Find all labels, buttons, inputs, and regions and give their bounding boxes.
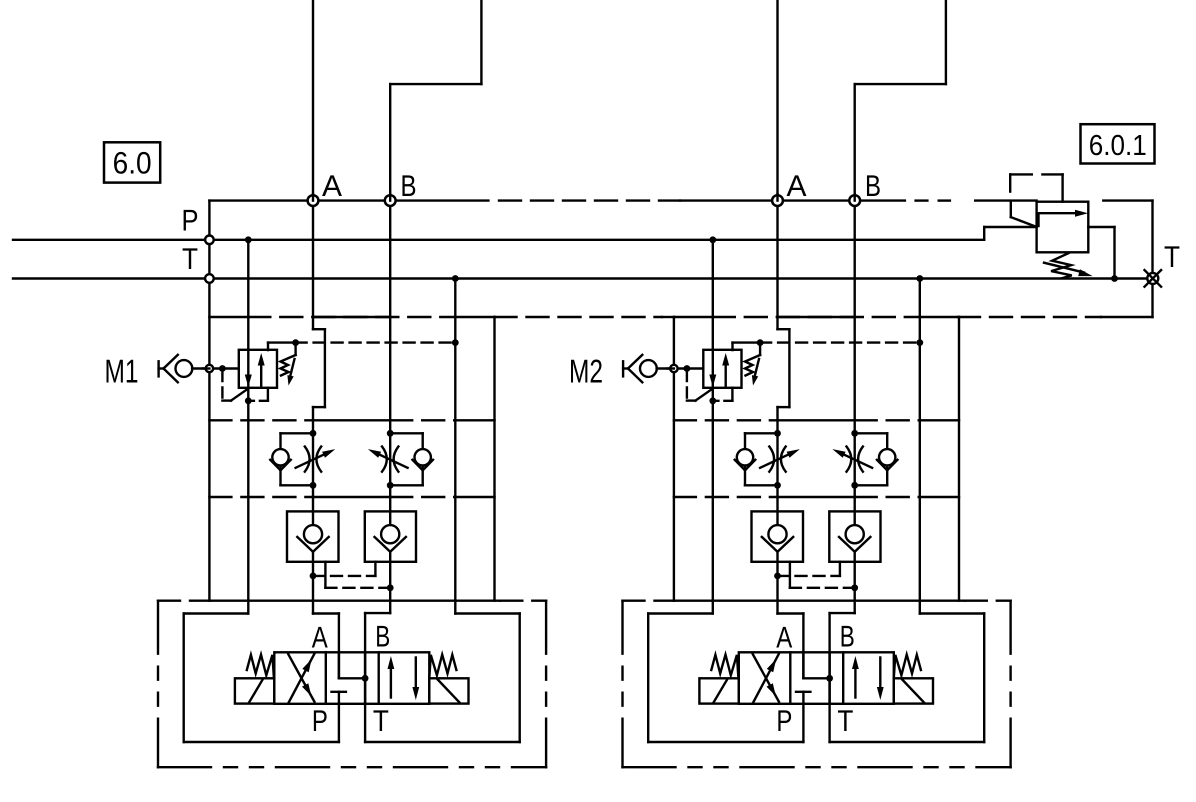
wire: P pressure rail — [13, 239, 984, 241]
DCV return spring left (module 6.0 section 1) — [247, 655, 274, 678]
wire: module inner right vertical (module 6.0 section 2) — [958, 317, 960, 601]
boundary dashed rail mid2 (module 6.0 section 1) — [209, 496, 494, 498]
junction: flow control bottom B (module 6.0 section 2) — [851, 482, 858, 489]
svg-text:P: P — [312, 705, 328, 738]
boundary dashed rail mid2 (module 6.0 section 2) — [674, 496, 959, 498]
label M2 — [569, 353, 603, 390]
relief valve 6.0.1 pilot pickup diagonal — [1011, 202, 1037, 227]
relief valve 6.0.1 body square — [1037, 202, 1089, 253]
label 6.0.1 — [1089, 130, 1147, 162]
wire: pilot cross line from A to check B (module 6.0 section 2) — [778, 562, 840, 576]
boundary dashed rail between modules — [495, 316, 675, 318]
wire: gauge line (module 6.0 section 1) — [192, 367, 239, 369]
wire: pilot cross line from A to check B (module 6.0 section 1) — [313, 562, 375, 576]
wire: P supply tap vertical (module 6.0 section 2) — [712, 240, 714, 614]
label P — [182, 205, 199, 238]
relief valve adjustable spring (module 6.0 section 1) — [281, 344, 296, 386]
label T — [182, 243, 198, 276]
wire: DCV port A channel (module 6.0 section 2) — [778, 614, 804, 679]
relief valve adjustable spring (module 6.0 section 2) — [745, 344, 760, 386]
wire: relief pilot riser (module 6.0 section 2) — [733, 343, 761, 351]
DCV right position parallel arrows (module 6.0 section 1) — [388, 656, 420, 700]
DCV centre position A-B-T connection (module 6.0 section 2) — [803, 652, 833, 704]
DCV return spring right (module 6.0 section 1) — [429, 655, 456, 678]
port B circle (module 6.0 section 2) — [849, 194, 860, 206]
valve subplate solid outline (module 6.0 section 1) — [184, 614, 520, 743]
bypass check valve A (module 6.0 section 2) — [735, 449, 756, 470]
wire: DCV port B channel (module 6.0 section 2) — [830, 613, 855, 704]
label DCV P (module 6.0 section 2) — [776, 705, 792, 738]
DCV centre position blocked P (module 6.0 section 1) — [332, 692, 346, 704]
relief valve arrow up (relief flow) (module 6.0 section 2) — [722, 353, 729, 388]
svg-text:T: T — [373, 705, 389, 738]
throttle adjust arrow B (module 6.0 section 1) — [368, 449, 408, 468]
junction: check pilot B (module 6.0 section 2) — [851, 584, 858, 591]
svg-text:A: A — [787, 170, 807, 203]
boundary dashed rail mid1 (module 6.0 section 1) — [209, 419, 494, 421]
DCV left position crossed arrows (module 6.0 section 1) — [288, 654, 314, 703]
svg-text:6.0: 6.0 — [113, 146, 152, 181]
wire: DCV port B channel (module 6.0 section 1) — [365, 613, 390, 704]
boundary dashed rail lower (module 6.0 section 2) — [623, 600, 1011, 602]
wire: T tank rail — [13, 277, 1147, 279]
label DCV A (module 6.0 section 2) — [776, 621, 792, 654]
label DCV A (module 6.0 section 1) — [312, 621, 328, 654]
DCV right position parallel arrows (module 6.0 section 2) — [852, 656, 884, 700]
junction: flow control top B (module 6.0 section 1) — [387, 430, 394, 437]
label 6.0 — [113, 146, 152, 181]
throttle adjust arrow B (module 6.0 section 2) — [832, 449, 872, 468]
wire: DCV P supply channel (module 6.0 section 2) — [802, 704, 804, 742]
bypass check valve A (module 6.0 section 1) — [270, 449, 291, 470]
proportional solenoid left (module 6.0 section 1) — [235, 678, 274, 703]
relief valve arrow down (P passage) (module 6.0 section 1) — [245, 375, 252, 388]
junction: flow control top A (module 6.0 section 2) — [774, 430, 781, 437]
svg-text:P: P — [776, 705, 792, 738]
label A (module 6.0 section 2) — [787, 170, 807, 203]
throttle adjust arrow A (module 6.0 section 2) — [760, 449, 800, 468]
boundary dashed rail upper (module 6.0 section 2) — [674, 316, 959, 318]
wire: port A riser to manifold top (module 6.0 section 2) — [776, 0, 778, 201]
label DCV B (module 6.0 section 1) — [375, 621, 390, 654]
svg-text:A: A — [322, 170, 342, 203]
relief drain lever diagonal (module 6.0 section 2) — [696, 389, 713, 401]
svg-text:M1: M1 — [105, 353, 139, 390]
boundary dashed rail lower (module 6.0 section 1) — [158, 600, 546, 602]
svg-text:M2: M2 — [569, 353, 603, 390]
svg-text:A: A — [776, 621, 792, 654]
wire: far right vertical to boundary — [1151, 201, 1153, 317]
wire: gauge line (module 6.0 section 2) — [657, 367, 704, 369]
throttle adjust arrow A (module 6.0 section 1) — [296, 449, 336, 468]
port P circle — [205, 236, 214, 245]
boundary dashed rail upper (module 6.0 section 1) — [209, 316, 494, 318]
wire: relief outlet to T rail — [1088, 227, 1114, 279]
junction: pilot drain on T tap (module 6.0 section 2) — [916, 339, 923, 346]
svg-text:B: B — [840, 621, 855, 654]
check valve B ball and seat (module 6.0 section 1) — [375, 525, 406, 552]
wire: pilot cross line from B to check A (module 6.0 section 2) — [790, 562, 855, 588]
directional valve body (module 6.0 section 2) — [739, 652, 894, 704]
relief valve 6.0.1 pilot box dashed — [1010, 174, 1062, 201]
junction: P tap on P rail (module 6.0 section 2) — [709, 236, 716, 243]
label B (module 6.0 section 2) — [865, 170, 881, 203]
wire: P supply tap vertical (module 6.0 section 1) — [247, 240, 249, 614]
svg-text:T: T — [182, 243, 198, 276]
DCV left position crossed arrows (module 6.0 section 2) — [753, 654, 779, 703]
flow control valve B side: bypass loop (module 6.0 section 2) — [855, 433, 888, 485]
junction: check pilot A (module 6.0 section 1) — [310, 573, 317, 580]
tag box 6.0.1 — [1081, 124, 1155, 163]
wire: B line through check box (module 6.0 section 2) — [854, 552, 856, 613]
wire: relief drain stub (module 6.0 section 2) — [713, 388, 733, 401]
boundary dashed rail mid1 (module 6.0 section 2) — [674, 419, 959, 421]
port T circle — [205, 274, 214, 283]
junction: relief drain on P tap (module 6.0 section 2) — [709, 397, 716, 404]
label DCV B (module 6.0 section 2) — [840, 621, 855, 654]
wire: B line through check box (module 6.0 section 1) — [389, 552, 391, 613]
wire: service line A (module 6.0 section 1) — [313, 201, 325, 525]
junction: relief drain on P tap (module 6.0 section 1) — [245, 397, 252, 404]
svg-text:6.0.1: 6.0.1 — [1089, 130, 1147, 162]
DCV return spring left (module 6.0 section 2) — [711, 655, 738, 678]
port A circle (module 6.0 section 1) — [308, 194, 319, 206]
relief valve arrow down (P passage) (module 6.0 section 2) — [709, 375, 716, 388]
svg-text:P: P — [182, 205, 199, 238]
check valve B ball and seat (module 6.0 section 2) — [839, 525, 870, 552]
junction: pilot line / spring (module 6.0 section 2) — [757, 339, 764, 346]
label DCV T (module 6.0 section 2) — [837, 705, 853, 738]
relief valve 6.0.1 adjustable spring — [1044, 253, 1093, 279]
port M circle on frame (module 6.0 section 2) — [667, 365, 677, 372]
svg-text:T: T — [1164, 241, 1180, 274]
wire: module inner right vertical (module 6.0 section 1) — [493, 317, 495, 601]
wire: DCV port A channel (module 6.0 section 1) — [313, 614, 339, 679]
junction: flow control bottom A (module 6.0 section 1) — [310, 482, 317, 489]
junction: gauge line / relief drain (module 6.0 section 1) — [219, 365, 226, 372]
junction: flow control top A (module 6.0 section 1) — [310, 430, 317, 437]
measuring point T symbol — [1145, 270, 1162, 287]
wire: pilot drain dashed to T tap (module 6.0 section 2) — [760, 341, 920, 343]
junction: flow control bottom A (module 6.0 section 2) — [774, 482, 781, 489]
wire: T return tap vertical (module 6.0 section 1) — [454, 279, 456, 614]
svg-text:T: T — [837, 705, 853, 738]
wire: module frame left vertical (module 6.0 section 1) — [208, 201, 210, 601]
wire: relief drain dashed L (module 6.0 section 1) — [222, 371, 231, 401]
junction: P tap on P rail (module 6.0 section 1) — [245, 236, 252, 243]
relief valve 6.0.1 flow arrow — [1039, 210, 1089, 226]
check valve A ball and seat (module 6.0 section 2) — [762, 525, 793, 552]
port A circle (module 6.0 section 2) — [772, 194, 783, 206]
junction: pilot drain on T tap (module 6.0 section 1) — [452, 339, 459, 346]
check valve box B (module 6.0 section 2) — [829, 511, 880, 561]
wire: port B riser to manifold top (module 6.0 section 1) — [390, 0, 481, 201]
svg-text:B: B — [401, 170, 417, 203]
DCV centre position A-B-T connection (module 6.0 section 1) — [339, 652, 369, 704]
wire: service line A (module 6.0 section 2) — [778, 201, 790, 525]
port M circle on frame (module 6.0 section 1) — [203, 365, 213, 372]
throttle restriction B (module 6.0 section 1) — [382, 447, 398, 472]
relief valve body square (module 6.0 section 1) — [239, 350, 277, 388]
throttle restriction A (module 6.0 section 2) — [769, 447, 785, 472]
wire: DCV T return channel (module 6.0 section 2) — [828, 704, 830, 742]
valve subplate solid outline (module 6.0 section 2) — [648, 614, 984, 743]
subplate dashed enclosure (module 6.0 section 2) — [623, 601, 1011, 768]
DCV return spring right (module 6.0 section 2) — [894, 655, 921, 678]
svg-text:B: B — [375, 621, 390, 654]
label B (module 6.0 section 1) — [401, 170, 417, 203]
wire: A line through check box (module 6.0 section 1) — [312, 552, 314, 614]
junction: flow control bottom B (module 6.0 section 1) — [387, 482, 394, 489]
label A (module 6.0 section 1) — [322, 170, 342, 203]
label DCV T (module 6.0 section 1) — [373, 705, 389, 738]
label M1 — [105, 353, 139, 390]
check valve box A (module 6.0 section 1) — [287, 511, 339, 561]
wire: A line through check box (module 6.0 section 2) — [776, 552, 778, 614]
proportional solenoid left (module 6.0 section 2) — [699, 678, 738, 703]
bypass check valve B (module 6.0 section 1) — [412, 449, 433, 470]
junction: pilot line / spring (module 6.0 section 1) — [292, 339, 299, 346]
tag box 6.0 — [104, 142, 160, 182]
wire: relief drain stub (module 6.0 section 1) — [248, 388, 268, 401]
junction: T tap on T rail (module 6.0 section 2) — [916, 275, 923, 282]
wire: relief drain dashed L (module 6.0 section 2) — [687, 371, 696, 401]
wire: service line B (module 6.0 section 1) — [389, 201, 391, 525]
boundary dashed rail far right — [958, 316, 1153, 318]
svg-text:A: A — [312, 621, 328, 654]
directional valve body (module 6.0 section 1) — [274, 652, 429, 704]
svg-text:B: B — [865, 170, 881, 203]
DCV centre position blocked P (module 6.0 section 2) — [796, 692, 810, 704]
flow control valve A side: bypass loop (module 6.0 section 2) — [745, 433, 778, 485]
port B circle (module 6.0 section 1) — [385, 194, 396, 206]
junction: check pilot A (module 6.0 section 2) — [774, 573, 781, 580]
junction: relief outlet on T rail — [1111, 275, 1118, 282]
wire: module frame left vertical (module 6.0 section 2) — [673, 317, 675, 601]
wire: DCV P supply channel (module 6.0 section 1) — [338, 704, 340, 742]
wire: port A riser to manifold top (module 6.0 section 1) — [312, 0, 314, 201]
relief drain lever diagonal (module 6.0 section 1) — [231, 389, 248, 401]
wire: pilot cross line from B to check A (module 6.0 section 1) — [325, 562, 390, 588]
measuring coupling symbol (module 6.0 section 2) — [623, 355, 657, 383]
wire: service line B (module 6.0 section 2) — [854, 201, 856, 525]
bypass check valve B (module 6.0 section 2) — [877, 449, 898, 470]
subplate dashed enclosure (module 6.0 section 1) — [158, 601, 546, 768]
junction: flow control top B (module 6.0 section 2) — [851, 430, 858, 437]
wire: P rail step up to relief inlet — [984, 227, 1036, 240]
junction: gauge line / relief drain (module 6.0 section 2) — [684, 365, 691, 372]
wire: manifold top rail through ports A/B — [209, 199, 1152, 201]
label T (measuring point) — [1164, 241, 1180, 274]
proportional solenoid right (module 6.0 section 1) — [429, 678, 468, 703]
relief valve arrow up (relief flow) (module 6.0 section 1) — [258, 353, 265, 388]
check valve box B (module 6.0 section 1) — [365, 511, 416, 561]
wire: relief pilot riser (module 6.0 section 1) — [268, 343, 296, 351]
wire: T return tap vertical (module 6.0 section 2) — [919, 279, 921, 614]
flow control valve A side: bypass loop (module 6.0 section 1) — [281, 433, 314, 485]
check valve box A (module 6.0 section 2) — [752, 511, 804, 561]
junction: T tap on T rail (module 6.0 section 1) — [452, 275, 459, 282]
flow control valve B side: bypass loop (module 6.0 section 1) — [390, 433, 423, 485]
wire: DCV T return channel (module 6.0 section 1) — [364, 704, 366, 742]
measuring coupling symbol (module 6.0 section 1) — [159, 355, 193, 383]
throttle restriction B (module 6.0 section 2) — [847, 447, 863, 472]
check valve A ball and seat (module 6.0 section 1) — [297, 525, 328, 552]
junction: check pilot B (module 6.0 section 1) — [387, 584, 394, 591]
label DCV P (module 6.0 section 1) — [312, 705, 328, 738]
relief valve body square (module 6.0 section 2) — [703, 350, 741, 388]
wire: port B riser to manifold top (module 6.0 section 2) — [855, 0, 946, 201]
proportional solenoid right (module 6.0 section 2) — [894, 678, 933, 703]
wire: pilot drain dashed to T tap (module 6.0 section 1) — [296, 341, 456, 343]
throttle restriction A (module 6.0 section 1) — [305, 447, 321, 472]
